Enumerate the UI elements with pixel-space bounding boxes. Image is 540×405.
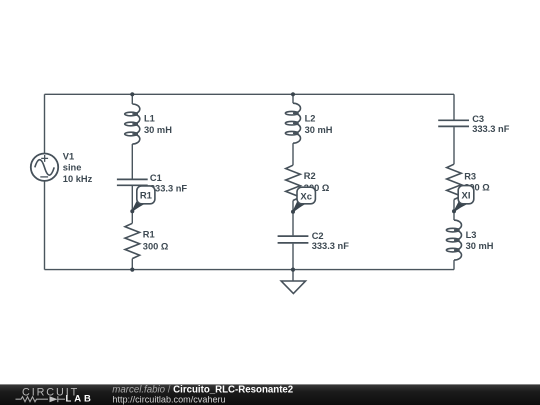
svg-text:333.3 nF: 333.3 nF: [312, 241, 350, 251]
wire L2 to R2: [292, 143, 294, 165]
svg-text:Xc: Xc: [300, 191, 312, 202]
svg-text:333.3 nF: 333.3 nF: [472, 124, 510, 134]
svg-text:C2: C2: [312, 231, 324, 241]
label V1 name/value: [63, 151, 93, 184]
voltage source V1: [31, 154, 58, 181]
flag R1 (probe callout): [132, 186, 155, 211]
svg-text:L2: L2: [305, 113, 316, 123]
svg-text:http://circuitlab.com/cvaheru: http://circuitlab.com/cvaheru: [112, 394, 225, 404]
capacitor C1: [117, 179, 148, 185]
node flag Xc anchor: [291, 210, 295, 214]
label R1 name/value: [143, 230, 169, 252]
svg-text:300 Ω: 300 Ω: [143, 241, 169, 251]
wire branch3 top lead: [453, 94, 455, 119]
svg-text:L3: L3: [466, 230, 477, 240]
flag Xc (probe callout): [293, 187, 315, 212]
ground: [281, 270, 305, 294]
label L1 name/value: [144, 113, 172, 135]
wire left rail lower (V1 to bottom rail): [44, 181, 46, 270]
capacitor C3: [438, 120, 469, 126]
svg-text:LAB: LAB: [66, 394, 94, 405]
junction bottom branch1: [130, 268, 134, 272]
label L3 name/value: [466, 230, 494, 251]
svg-text:30 mH: 30 mH: [466, 241, 494, 251]
junction top branch2: [291, 92, 295, 96]
junction top branch1: [130, 92, 134, 96]
svg-text:XI: XI: [462, 191, 471, 202]
wire R3 to L3: [453, 200, 455, 221]
logo resistor-diode glyph: [16, 396, 66, 402]
wire L1 to C1: [131, 144, 133, 179]
flag XI (probe callout): [454, 186, 474, 212]
inductor L1: [125, 104, 140, 144]
svg-text:10 kHz: 10 kHz: [63, 174, 93, 184]
wire bottom rail: [45, 269, 455, 271]
resistor R3: [447, 164, 462, 199]
footer bar: [0, 384, 540, 405]
wire branch2 top lead: [292, 94, 294, 103]
svg-text:R3: R3: [464, 172, 476, 182]
node flag XI anchor: [452, 209, 456, 213]
node flag R1 anchor: [130, 209, 134, 213]
label R2 name/value: [304, 171, 330, 193]
wire branch1 top lead: [131, 94, 133, 104]
capacitor C2: [278, 236, 309, 243]
svg-text:L1: L1: [144, 113, 155, 123]
label L2 name/value: [305, 113, 333, 135]
resistor R2: [286, 165, 301, 200]
wire C2 to bottom rail: [292, 244, 294, 270]
svg-text:sine: sine: [63, 163, 82, 173]
svg-text:R1: R1: [140, 191, 153, 202]
svg-text:R1: R1: [143, 230, 155, 240]
inductor L3: [446, 220, 461, 260]
wire R2 to C2: [292, 201, 294, 236]
wire top rail: [45, 93, 455, 95]
svg-text:30 mH: 30 mH: [144, 125, 172, 135]
label C2 name/value: [312, 231, 350, 251]
junction bottom branch2 (ground node): [291, 268, 295, 272]
resistor R1: [125, 223, 140, 258]
wire left rail upper (top rail to V1): [44, 94, 46, 153]
svg-text:R2: R2: [304, 171, 316, 181]
label C3 name/value: [472, 114, 510, 134]
label R3 name/value: [464, 172, 490, 193]
label C1 name/value: [150, 173, 188, 193]
svg-text:30 mH: 30 mH: [305, 125, 333, 135]
inductor L2: [285, 103, 300, 143]
svg-text:C3: C3: [472, 114, 484, 124]
wire R1 to bottom rail: [131, 259, 133, 270]
wire L3 to bottom rail: [453, 260, 455, 270]
wire C1 to R1: [131, 186, 133, 223]
wire C3 to R3: [453, 127, 455, 164]
svg-text:V1: V1: [63, 151, 74, 161]
svg-text:C1: C1: [150, 173, 162, 183]
